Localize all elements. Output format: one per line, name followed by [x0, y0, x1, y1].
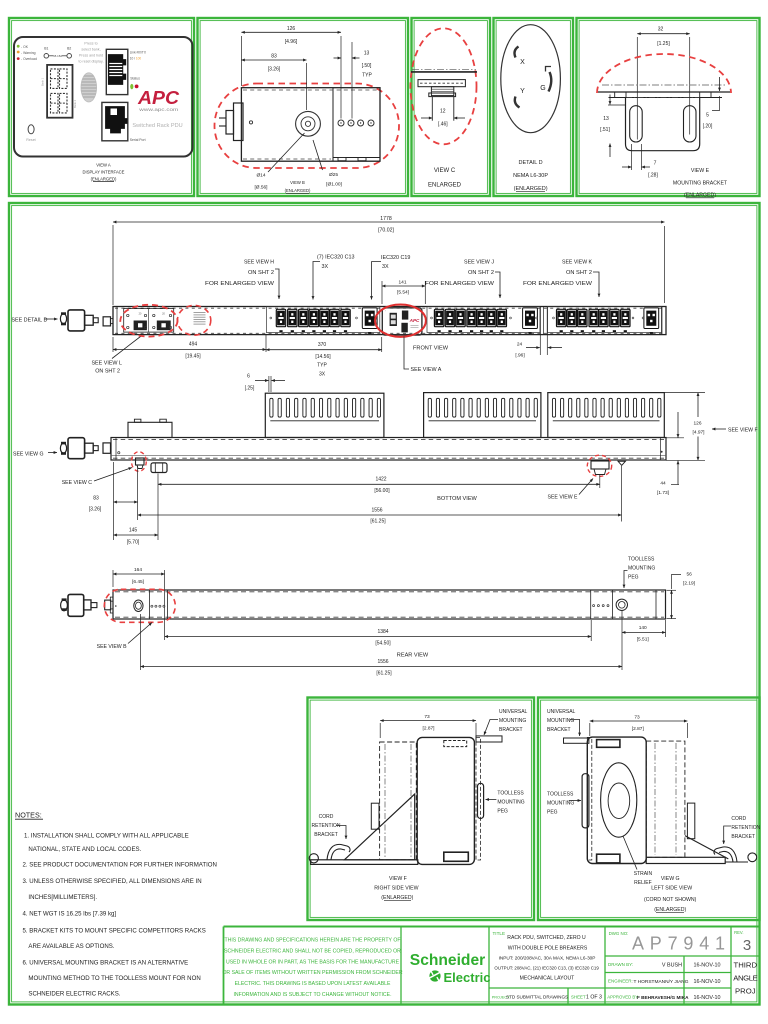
- dim 13 typ: [351, 42, 353, 119]
- svg-text:STRAIN: STRAIN: [634, 871, 653, 877]
- rear plug collar: [84, 600, 91, 610]
- svg-text:[5.51]: [5.51]: [637, 637, 649, 643]
- outlet group 2 C13: [434, 309, 443, 332]
- svg-text:INCHES[MILLIMETERS].: INCHES[MILLIMETERS].: [28, 894, 97, 901]
- rear right vent dots: [593, 605, 595, 607]
- LED overload: [17, 57, 20, 60]
- svg-text:AP7941: AP7941: [632, 934, 731, 954]
- red ellipse around display: [375, 305, 426, 337]
- input connector top view: [234, 103, 244, 141]
- svg-text:DISPLAY INTERFACE: DISPLAY INTERFACE: [83, 170, 125, 175]
- section screws 3: [553, 317, 555, 319]
- C19 outlet 3: [644, 308, 659, 334]
- svg-text:Switched Rack PDU: Switched Rack PDU: [132, 123, 182, 129]
- svg-text:(ENLARGED): (ENLARGED): [285, 188, 311, 193]
- svg-text:3X: 3X: [319, 371, 326, 377]
- dim 145 bottom: [157, 474, 159, 541]
- svg-text:CORD: CORD: [319, 814, 334, 820]
- dim 6 [.25]: [268, 376, 270, 392]
- gusset triangle F: [344, 794, 414, 860]
- svg-text:[.28]: [.28]: [648, 173, 658, 179]
- svg-text:[70.02]: [70.02]: [378, 228, 394, 234]
- front view bar: [113, 307, 666, 335]
- base plate G: [646, 857, 725, 863]
- rear left vent dots: [151, 605, 153, 607]
- svg-text:SEE VIEW K: SEE VIEW K: [562, 260, 592, 266]
- blade slot Y: [515, 97, 520, 108]
- svg-text:13: 13: [364, 51, 370, 57]
- front plug collar: [85, 315, 94, 325]
- left tab: [615, 92, 626, 98]
- svg-text:NEMA L6-30P: NEMA L6-30P: [513, 173, 548, 179]
- svg-text:3. UNLESS OTHERWISE SPECIFIED,: 3. UNLESS OTHERWISE SPECIFIED, ALL DIMEN…: [23, 878, 202, 885]
- svg-text:DWG NO:: DWG NO:: [609, 931, 629, 936]
- leader C13 group: [313, 262, 320, 300]
- svg-text:[Ø.56]: [Ø.56]: [254, 185, 267, 191]
- svg-text:V BUSH: V BUSH: [662, 963, 682, 969]
- svg-text:15.15A: 15.15A: [53, 54, 62, 58]
- svg-text:Status: Status: [130, 77, 140, 81]
- line between B1 B2: [49, 55, 54, 57]
- svg-text:(ENLARGED): (ENLARGED): [91, 176, 117, 181]
- toolless hole rear left: [134, 600, 143, 612]
- svg-text:Press and hold: Press and hold: [79, 54, 103, 58]
- svg-text:VIEW G: VIEW G: [661, 876, 680, 882]
- svg-text:[.25]: [.25]: [245, 386, 255, 392]
- svg-text:ARE AVAILABLE AS OPTIONS.: ARE AVAILABLE AS OPTIONS.: [28, 943, 114, 950]
- bottom plug body: [68, 438, 85, 459]
- panel: VIEW F right side view: [308, 698, 535, 921]
- svg-text:126: 126: [287, 26, 296, 32]
- svg-text:ON SHT 2: ON SHT 2: [95, 369, 120, 375]
- bottom bar left rivet: [118, 452, 120, 454]
- svg-text:13: 13: [603, 116, 609, 122]
- red dashed stadium rear left: [104, 589, 175, 622]
- svg-text:BRACKET: BRACKET: [547, 727, 571, 733]
- bottom plug cord cap: [60, 443, 66, 453]
- bar right end cap: [661, 307, 663, 335]
- dim 83 bottom: [113, 462, 115, 540]
- LED OK: [17, 45, 20, 48]
- svg-text:FRONT VIEW: FRONT VIEW: [413, 346, 449, 352]
- seven segment digits bank1: [51, 69, 59, 89]
- surface line: [411, 71, 477, 73]
- dim 13 [.51]: [608, 104, 625, 106]
- svg-text:MOUNTING: MOUNTING: [547, 801, 574, 807]
- svg-text:4. NET WGT IS 16.25 lbs [7.39: 4. NET WGT IS 16.25 lbs [7.39 kg]: [23, 910, 117, 917]
- seven segment display frame: [47, 65, 72, 118]
- bottom inlet flange: [103, 443, 111, 453]
- svg-text:Ø14: Ø14: [256, 173, 265, 179]
- cord strap F: [327, 844, 350, 859]
- ethernet RJ45 jack: [106, 49, 128, 94]
- strain relief ellipse inner: [608, 783, 630, 819]
- section screws 2: [431, 317, 433, 319]
- svg-text:73: 73: [424, 714, 430, 720]
- rear left seams: [149, 590, 151, 619]
- dim 494: [112, 337, 114, 352]
- view A: display interface bezel: [14, 37, 193, 157]
- pdu body side G: [587, 737, 646, 863]
- svg-text:F BEHRAVESH/G MIKA: F BEHRAVESH/G MIKA: [637, 995, 689, 1000]
- svg-text:www.apc.com: www.apc.com: [139, 107, 178, 112]
- svg-text:OUTPUT: 208VAC, (21) IEC320 C1: OUTPUT: 208VAC, (21) IEC320 C13, (3) IEC…: [494, 965, 599, 970]
- dim 1384: [590, 620, 592, 641]
- svg-text:SEE VIEW B: SEE VIEW B: [97, 644, 128, 650]
- outlet group 1 C13: [276, 309, 285, 332]
- svg-text:SEE VIEW F: SEE VIEW F: [728, 428, 758, 434]
- four vent holes: [338, 120, 344, 126]
- svg-text:Bank 1: Bank 1: [41, 77, 45, 86]
- rubber foot 1: [136, 458, 145, 465]
- svg-text:[2.19]: [2.19]: [683, 581, 695, 587]
- panel: main drawing area: [9, 203, 760, 1005]
- dim 5 [.20]: [719, 77, 721, 91]
- rear plug body: [68, 594, 84, 616]
- svg-text:56: 56: [687, 571, 693, 577]
- svg-text:1. INSTALLATION SHALL COMPLY W: 1. INSTALLATION SHALL COMPLY WITH ALL AP…: [24, 832, 189, 839]
- svg-text:SHEET: SHEET: [571, 994, 586, 999]
- svg-text:SEE VIEW H: SEE VIEW H: [244, 260, 274, 266]
- red dashed rack dome: [597, 54, 731, 93]
- svg-text:VIEW E: VIEW E: [691, 168, 710, 174]
- svg-text:494: 494: [189, 342, 198, 348]
- svg-text:ELECTRIC. THIS DRAWING IS BASE: ELECTRIC. THIS DRAWING IS BASED UPON LAT…: [235, 981, 391, 987]
- right tab: [700, 92, 711, 98]
- svg-text:Reset: Reset: [26, 138, 35, 142]
- small plate F: [371, 803, 379, 829]
- phantom plate G: [646, 741, 685, 857]
- left slot: [630, 106, 643, 142]
- svg-text:TOOLLESS: TOOLLESS: [547, 792, 574, 798]
- svg-text:(7) IEC320 C13: (7) IEC320 C13: [317, 255, 354, 261]
- red dashed circle foot 2: [587, 455, 611, 476]
- svg-text:to reset display,: to reset display,: [79, 60, 104, 64]
- svg-text:IEC320 C19: IEC320 C19: [381, 255, 410, 261]
- svg-text:TITLE: TITLE: [493, 931, 506, 936]
- svg-text:370: 370: [318, 342, 327, 348]
- svg-text:[.96]: [.96]: [515, 352, 524, 358]
- front plug stem: [93, 318, 98, 323]
- outlet section 3 frame: [548, 306, 662, 332]
- bottom bar right rivet: [661, 451, 663, 453]
- svg-text:PEG: PEG: [628, 575, 639, 581]
- svg-text:RIGHT SIDE VIEW: RIGHT SIDE VIEW: [374, 886, 418, 892]
- svg-text:1778: 1778: [380, 216, 392, 222]
- bracket plate phantom F: [380, 742, 417, 860]
- svg-text:B1: B1: [44, 47, 48, 51]
- title block grid: [224, 926, 760, 928]
- svg-text:[4.97]: [4.97]: [692, 430, 704, 436]
- bar seam joint: [539, 307, 541, 335]
- svg-text:ON SHT 2: ON SHT 2: [248, 270, 274, 276]
- svg-text:ENLARGED: ENLARGED: [428, 183, 462, 189]
- outlet group 3 C13: [557, 309, 566, 332]
- bottom plug collar: [85, 443, 94, 453]
- rubber foot 2: [591, 461, 609, 469]
- svg-text:RETENTION: RETENTION: [312, 823, 341, 829]
- pdu body side F: [417, 737, 474, 864]
- breaker section: [124, 309, 174, 333]
- bottom plug stem: [93, 446, 98, 451]
- C19 outlet 1: [362, 308, 377, 334]
- svg-text:VIEW A: VIEW A: [96, 162, 111, 167]
- svg-text:1556: 1556: [371, 507, 382, 513]
- dim 12: [421, 117, 432, 119]
- svg-text:NOTES:: NOTES:: [15, 811, 42, 820]
- dim 7 [.28]: [631, 144, 633, 170]
- svg-text:[5.70]: [5.70]: [127, 540, 140, 546]
- leader C19: [372, 262, 382, 300]
- svg-text:BRACKET: BRACKET: [731, 834, 755, 840]
- dim 1556 bottom: [621, 466, 623, 522]
- peg legs: [431, 97, 433, 121]
- svg-text:VIEW B: VIEW B: [290, 180, 305, 185]
- top view body: [241, 88, 380, 162]
- svg-text:SEE VIEW L: SEE VIEW L: [91, 361, 122, 367]
- svg-text:G: G: [540, 85, 545, 92]
- svg-text:[.50]: [.50]: [362, 63, 372, 69]
- svg-text:TYP: TYP: [317, 363, 327, 369]
- svg-text:FOR ENLARGED VIEW: FOR ENLARGED VIEW: [523, 281, 593, 287]
- red dashed circle foot 1: [132, 452, 147, 472]
- svg-text:PROJ: PROJ: [735, 987, 756, 996]
- svg-text:Press to: Press to: [84, 42, 97, 46]
- bracket rear plate G: [587, 737, 592, 860]
- svg-text:ON SHT 2: ON SHT 2: [468, 270, 494, 276]
- svg-text:[.20]: [.20]: [703, 124, 713, 130]
- bottom clip G: [597, 854, 620, 863]
- svg-text:INFORMATION AND IS SUBJECT TO: INFORMATION AND IS SUBJECT TO CHANGE WIT…: [233, 992, 391, 998]
- panel: top view / VIEW B: [198, 18, 409, 196]
- svg-text:BRACKET: BRACKET: [499, 727, 523, 733]
- rear plug stem: [91, 603, 97, 608]
- svg-text:1422: 1422: [375, 477, 386, 483]
- svg-text:FOR ENLARGED VIEW: FOR ENLARGED VIEW: [205, 281, 275, 287]
- svg-text:RELIEF: RELIEF: [634, 880, 652, 886]
- svg-text:83: 83: [93, 496, 99, 502]
- svg-text:[3.26]: [3.26]: [89, 507, 102, 513]
- dim 73 view G: [589, 723, 591, 736]
- svg-text:24: 24: [517, 341, 523, 347]
- svg-text:USED IN WHOLE OR IN PART, AS T: USED IN WHOLE OR IN PART, AS THE BASIS F…: [226, 959, 400, 965]
- svg-text:1556: 1556: [377, 659, 388, 665]
- bottom view bar: [111, 438, 666, 461]
- svg-text:SCHNEIDER ELECTRIC AND SHALL N: SCHNEIDER ELECTRIC AND SHALL NOT BE COPI…: [224, 948, 401, 954]
- dim 126: [240, 36, 242, 86]
- svg-text:THIRD: THIRD: [734, 961, 758, 970]
- svg-text:Link-RX/TX: Link-RX/TX: [130, 51, 147, 55]
- outlet section 1 frame: [266, 306, 379, 332]
- bottom bar end caps: [115, 438, 117, 461]
- rack centerline: [602, 84, 726, 86]
- svg-text:126: 126: [693, 421, 701, 427]
- display module front: [382, 308, 422, 335]
- svg-text:3X: 3X: [322, 264, 329, 270]
- svg-text:SEE VIEW C: SEE VIEW C: [62, 480, 93, 486]
- blade slot X: [515, 47, 519, 58]
- cord strap G: [714, 847, 737, 862]
- svg-text:APC: APC: [409, 318, 420, 323]
- peg plate: [418, 80, 465, 87]
- cord loop circle G: [748, 853, 757, 862]
- svg-text:Ø25: Ø25: [329, 172, 338, 178]
- svg-text:MOUNTING BRACKET: MOUNTING BRACKET: [673, 181, 728, 187]
- svg-text:[19.45]: [19.45]: [185, 354, 201, 360]
- right tab G: [687, 803, 694, 839]
- panel: VIEW A display interface: [9, 18, 194, 196]
- svg-text:UNIVERSAL: UNIVERSAL: [547, 709, 576, 715]
- panel: VIEW E mounting bracket: [577, 18, 760, 196]
- panel: VIEW C: [412, 18, 491, 196]
- svg-text:44: 44: [660, 480, 666, 486]
- svg-text:[14.56]: [14.56]: [315, 354, 331, 360]
- svg-text:CORD: CORD: [731, 816, 746, 822]
- svg-text:STD SUBMITTAL DRAWINGS: STD SUBMITTAL DRAWINGS: [506, 995, 568, 1000]
- svg-text:RETENTION: RETENTION: [731, 825, 760, 831]
- red dashed ellipse around label: [177, 305, 210, 335]
- svg-text:3: 3: [743, 937, 751, 954]
- outlet section 2 frame: [427, 306, 540, 332]
- blade slot G: [549, 72, 552, 92]
- svg-text:DRAWN BY:: DRAWN BY:: [608, 962, 633, 967]
- svg-text:INPUT: 200/208VAC, 30A MAX, NE: INPUT: 200/208VAC, 30A MAX, NEMA L6-30P: [499, 955, 596, 960]
- leader dia25: [313, 140, 323, 170]
- universal bracket arm G: [564, 738, 589, 743]
- svg-text:APPROVED BY: APPROVED BY: [607, 995, 638, 1000]
- breaker rockers: [134, 321, 147, 331]
- toolless peg rear right: [616, 599, 627, 610]
- bottom view outlet block 3: [548, 393, 665, 438]
- svg-text:3X: 3X: [382, 264, 389, 270]
- bar left end cap: [116, 307, 118, 335]
- svg-text:6. UNIVERSAL MOUNTING BRACKET: 6. UNIVERSAL MOUNTING BRACKET IS AN ALTE…: [23, 960, 189, 967]
- dim 126 right: [665, 392, 706, 394]
- svg-text:UNIVERSAL: UNIVERSAL: [499, 709, 528, 715]
- base plate F: [311, 860, 418, 865]
- svg-text:SEE DETAIL D: SEE DETAIL D: [11, 318, 47, 324]
- svg-text:Electric: Electric: [444, 970, 491, 985]
- toolless peg side F: [478, 783, 484, 818]
- C19 outlet 2: [523, 308, 538, 334]
- rear inlet flange: [105, 600, 111, 610]
- svg-text:1384: 1384: [377, 629, 388, 635]
- top view edge hatch: [243, 89, 378, 91]
- leader see view J: [495, 272, 500, 298]
- svg-text:Y: Y: [520, 88, 525, 95]
- bottom view outlet block 1: [265, 393, 384, 437]
- svg-text:[61.25]: [61.25]: [376, 670, 392, 676]
- svg-text:10 / 100: 10 / 100: [130, 56, 142, 60]
- svg-text:[4.96]: [4.96]: [285, 39, 298, 45]
- svg-text:[Ø1.00]: [Ø1.00]: [326, 182, 342, 188]
- svg-text:X: X: [520, 59, 525, 66]
- top clip G: [597, 740, 620, 748]
- breaker housing bottom view: [128, 422, 172, 437]
- svg-text:145: 145: [129, 528, 138, 534]
- svg-text:2. SEE PRODUCT DOCUMENTATION F: 2. SEE PRODUCT DOCUMENTATION FOR FURTHER…: [23, 862, 217, 869]
- svg-text:MECHANICAL LAYOUT: MECHANICAL LAYOUT: [520, 975, 575, 981]
- svg-text:FOR ENLARGED VIEW: FOR ENLARGED VIEW: [425, 281, 495, 287]
- svg-text:6: 6: [247, 374, 250, 380]
- svg-text:TYP: TYP: [362, 73, 372, 79]
- toolless peg 2 bottom view: [618, 461, 625, 465]
- svg-text:140: 140: [639, 625, 647, 631]
- svg-text:73: 73: [634, 714, 640, 720]
- svg-text:16-NOV-10: 16-NOV-10: [694, 963, 721, 969]
- svg-text:Bank 2: Bank 2: [73, 99, 77, 108]
- svg-text:MOUNTING: MOUNTING: [547, 718, 574, 724]
- svg-text:[61.25]: [61.25]: [370, 519, 386, 525]
- toolless peg side G: [582, 774, 589, 828]
- svg-text:MOUNTING METHOD TO THE TOOLLES: MOUNTING METHOD TO THE TOOLLESS MOUNT FO…: [28, 975, 200, 982]
- top view right plate divider: [332, 88, 334, 162]
- rating label: [194, 312, 206, 314]
- svg-text:[2.87]: [2.87]: [632, 726, 644, 732]
- peg stem: [431, 87, 453, 96]
- svg-text:RACK PDU, SWITCHED, ZERO U: RACK PDU, SWITCHED, ZERO U: [507, 935, 586, 941]
- svg-text:SEE VIEW E: SEE VIEW E: [548, 495, 579, 501]
- reset button: [28, 125, 34, 134]
- red dashed outline view B: [215, 84, 400, 169]
- gusset line G: [685, 836, 728, 859]
- dim 73 view F: [379, 723, 381, 738]
- dim 1778 overall: [112, 225, 114, 305]
- svg-text:MOUNTING: MOUNTING: [628, 566, 655, 572]
- bottom view outlet block 2: [424, 393, 541, 438]
- svg-text:PEG: PEG: [497, 809, 508, 815]
- svg-text:ANGLE: ANGLE: [733, 974, 757, 983]
- svg-text:83: 83: [271, 53, 277, 59]
- top clip F: [444, 741, 467, 747]
- leader toolless peg rear: [624, 571, 628, 589]
- blade slot G hook: [546, 67, 552, 72]
- svg-text:select bank,: select bank,: [81, 48, 100, 52]
- dim 32: [636, 37, 638, 140]
- dim 141 display module: [381, 281, 383, 304]
- breaker screws: [127, 314, 129, 316]
- front inlet connector: [103, 317, 110, 326]
- svg-text:Schneider: Schneider: [410, 952, 485, 969]
- leader see view L: [112, 337, 141, 359]
- label see view F: [712, 428, 726, 430]
- svg-text:12: 12: [440, 109, 446, 115]
- svg-text:[6.45]: [6.45]: [132, 579, 144, 585]
- svg-text:7: 7: [654, 161, 657, 167]
- svg-text:ON SHT 2: ON SHT 2: [566, 270, 592, 276]
- dim 164: [112, 570, 114, 587]
- svg-text:[.51]: [.51]: [600, 127, 610, 133]
- svg-text:B2: B2: [67, 47, 71, 51]
- section screws 1: [270, 317, 272, 319]
- center knockout circles: [296, 111, 321, 136]
- leader dia14: [268, 133, 305, 172]
- svg-text:T HORSTMANN/Y JIANG: T HORSTMANN/Y JIANG: [634, 979, 689, 985]
- red dashed ellipse view C: [411, 28, 477, 144]
- small hole: [249, 121, 252, 124]
- svg-text:- Overload: - Overload: [21, 57, 37, 61]
- svg-text:REV.: REV.: [734, 930, 743, 935]
- dim 140: [621, 611, 623, 670]
- cord loop circle F: [309, 854, 318, 863]
- universal bracket arm F: [476, 736, 502, 742]
- svg-text:MOUNTING: MOUNTING: [499, 718, 526, 724]
- right slot: [684, 106, 697, 142]
- strain relief ellipse outer: [601, 763, 637, 837]
- svg-text:WITH DOUBLE POLE BREAKERS: WITH DOUBLE POLE BREAKERS: [508, 945, 588, 951]
- svg-text:[3.26]: [3.26]: [268, 67, 281, 73]
- dim 1422: [599, 475, 601, 488]
